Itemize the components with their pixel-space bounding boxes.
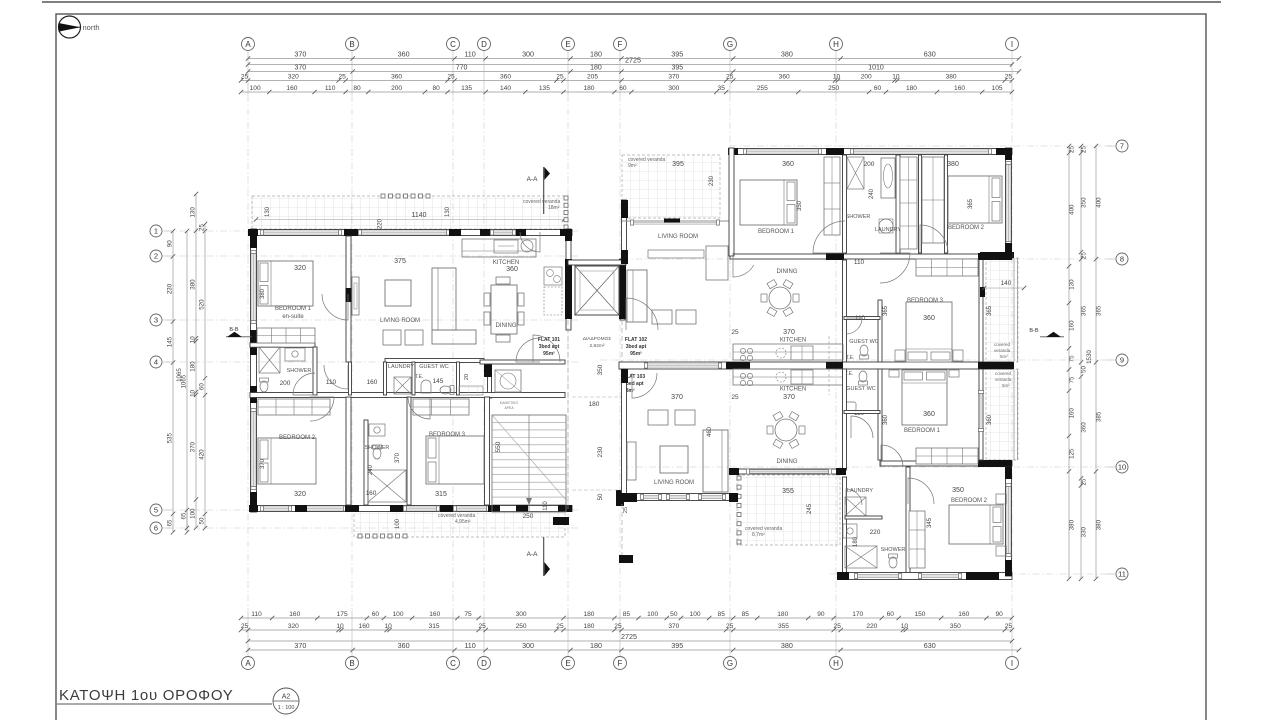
- veranda top-left hatch: [252, 194, 568, 229]
- svg-text:360: 360: [779, 74, 790, 81]
- dining table left flat: [484, 277, 524, 342]
- svg-text:5m²: 5m²: [1000, 354, 1008, 359]
- svg-text:90: 90: [996, 611, 1004, 618]
- flat 102 label: [625, 337, 647, 357]
- svg-text:350: 350: [950, 623, 961, 630]
- svg-text:covered: covered: [994, 342, 1011, 347]
- svg-text:100: 100: [393, 611, 404, 618]
- svg-text:345: 345: [927, 517, 933, 528]
- upper flat top wall: [728, 148, 1012, 155]
- svg-text:10: 10: [384, 623, 392, 630]
- lower shower room: [845, 529, 905, 568]
- svg-text:240: 240: [869, 188, 875, 199]
- svg-text:1010: 1010: [868, 65, 884, 72]
- svg-text:365: 365: [1081, 305, 1088, 316]
- svg-text:8: 8: [1120, 255, 1124, 264]
- svg-text:FLAT 102: FLAT 102: [625, 337, 647, 343]
- svg-text:175: 175: [337, 611, 348, 618]
- svg-text:140: 140: [500, 85, 511, 92]
- svg-text:BEDROOM 2: BEDROOM 2: [948, 225, 985, 231]
- svg-text:370: 370: [668, 74, 679, 81]
- left flat interior walls: [250, 236, 565, 505]
- svg-text:160: 160: [1069, 320, 1076, 331]
- svg-text:A-A: A-A: [527, 551, 539, 558]
- svg-text:350: 350: [797, 200, 803, 211]
- svg-text:140: 140: [1001, 280, 1012, 287]
- svg-text:370: 370: [783, 329, 795, 336]
- svg-text:220: 220: [866, 623, 877, 630]
- flat 103 label: [623, 374, 645, 394]
- svg-text:95m²: 95m²: [543, 351, 555, 357]
- outer trim line top: [42, 1, 1221, 3]
- svg-text:130: 130: [265, 206, 271, 217]
- svg-text:370: 370: [671, 394, 683, 401]
- svg-text:360: 360: [1081, 422, 1088, 433]
- svg-text:BEDROOM 3: BEDROOM 3: [429, 432, 466, 438]
- svg-text:370: 370: [294, 49, 306, 58]
- svg-text:160: 160: [359, 623, 370, 630]
- svg-text:25: 25: [556, 74, 564, 81]
- svg-text:300: 300: [522, 49, 534, 58]
- staircase: [492, 415, 566, 520]
- svg-text:90: 90: [817, 611, 825, 618]
- svg-text:320: 320: [294, 265, 306, 272]
- veranda lower-middle hatch: [737, 475, 840, 545]
- svg-text:50: 50: [670, 611, 678, 618]
- left dimension column chains: [167, 192, 208, 535]
- svg-text:385: 385: [1096, 411, 1103, 422]
- svg-text:25: 25: [731, 329, 739, 336]
- lower flat left wall: [620, 369, 738, 513]
- svg-text:380: 380: [781, 641, 793, 650]
- svg-text:110: 110: [325, 85, 336, 92]
- svg-text:370: 370: [783, 394, 795, 401]
- svg-text:BEDROOM 1: BEDROOM 1: [275, 306, 312, 312]
- laundry room strip: [367, 364, 424, 394]
- svg-text:F: F: [618, 659, 623, 668]
- svg-text:370: 370: [294, 65, 306, 72]
- svg-text:5: 5: [154, 506, 158, 515]
- top dimension row walls: [239, 74, 1014, 83]
- svg-text:10: 10: [901, 623, 909, 630]
- svg-text:11: 11: [1118, 570, 1126, 579]
- upper flat guest wc: [846, 315, 879, 361]
- svg-text:300: 300: [516, 611, 527, 618]
- svg-text:360: 360: [782, 161, 794, 168]
- svg-text:105: 105: [992, 85, 1003, 92]
- top dimension row spans: [246, 49, 1021, 60]
- svg-text:380: 380: [947, 161, 959, 168]
- svg-text:355: 355: [778, 623, 789, 630]
- bed bedroom 2 left: [258, 438, 316, 498]
- svg-text:95m²: 95m²: [630, 351, 642, 357]
- svg-text:250: 250: [828, 85, 839, 92]
- svg-text:LAUNDRY: LAUNDRY: [875, 227, 902, 233]
- corridor dashed edges: [568, 320, 622, 555]
- svg-text:LIVING ROOM: LIVING ROOM: [654, 480, 694, 486]
- svg-text:covered: covered: [995, 371, 1012, 376]
- svg-text:180: 180: [853, 536, 859, 547]
- svg-text:360: 360: [883, 414, 889, 425]
- svg-text:110: 110: [854, 259, 865, 266]
- upper flat left wall & veranda edge: [621, 148, 734, 264]
- svg-text:180: 180: [583, 623, 594, 630]
- svg-text:160: 160: [958, 611, 969, 618]
- svg-text:135: 135: [461, 85, 472, 92]
- guest wc strip: [419, 364, 483, 395]
- svg-text:160: 160: [954, 85, 965, 92]
- grid lines horizontal right rows: [600, 146, 1112, 574]
- veranda right-lower hatch: [986, 369, 1018, 460]
- svg-text:LIVING ROOM: LIVING ROOM: [380, 318, 420, 324]
- svg-text:130: 130: [445, 206, 451, 217]
- svg-text:205: 205: [587, 74, 598, 81]
- svg-text:250: 250: [523, 513, 534, 520]
- svg-text:25: 25: [447, 74, 455, 81]
- svg-text:25: 25: [1005, 74, 1013, 81]
- svg-text:395: 395: [671, 641, 683, 650]
- stair lobby fixture: [495, 370, 521, 410]
- room label kitchen left: [493, 260, 519, 273]
- svg-text:75: 75: [1069, 355, 1076, 362]
- top dimension row total 2725: [246, 55, 1014, 66]
- svg-text:B: B: [349, 40, 354, 49]
- svg-text:B-B: B-B: [1029, 328, 1039, 334]
- svg-text:85: 85: [718, 611, 726, 618]
- svg-text:7: 7: [1120, 142, 1124, 151]
- bottom dimension row walls: [239, 623, 1014, 632]
- closet bedroom 1: [257, 328, 315, 343]
- svg-text:85: 85: [742, 611, 750, 618]
- svg-text:160: 160: [429, 611, 440, 618]
- grid column stems: [248, 51, 1012, 656]
- svg-text:300: 300: [522, 641, 534, 650]
- svg-text:3bed apt: 3bed apt: [626, 344, 647, 350]
- svg-text:50: 50: [1081, 365, 1088, 372]
- svg-text:BEDROOM 2: BEDROOM 2: [279, 435, 316, 441]
- svg-text:380: 380: [1069, 519, 1076, 530]
- svg-text:A: A: [245, 659, 251, 668]
- svg-text:2: 2: [154, 252, 158, 261]
- svg-text:25: 25: [614, 623, 622, 630]
- left flat top wall: [248, 229, 572, 236]
- svg-text:north: north: [83, 23, 100, 32]
- svg-text:SHOWER: SHOWER: [287, 368, 312, 374]
- veranda right-middle hatch: [986, 258, 1018, 362]
- svg-text:130: 130: [1069, 279, 1076, 290]
- svg-text:315: 315: [435, 491, 447, 498]
- wardrobe bedroom 2 upper right: [922, 157, 944, 243]
- svg-text:370: 370: [668, 623, 679, 630]
- svg-text:395: 395: [671, 65, 683, 72]
- svg-text:130: 130: [190, 207, 197, 218]
- svg-text:ΚΑΘΙΣΤΙΚΟ: ΚΑΘΙΣΤΙΚΟ: [500, 401, 519, 405]
- closet bedroom 3 left: [413, 399, 469, 415]
- veranda upper-right hatch: [622, 155, 720, 218]
- scale bubble A2 1:100: [273, 688, 299, 714]
- svg-text:F: F: [618, 40, 623, 49]
- bed bedroom 3 left: [395, 436, 484, 498]
- svg-text:25: 25: [241, 623, 249, 630]
- svg-text:550: 550: [495, 441, 502, 452]
- shower room en-suite strip: [259, 347, 337, 392]
- svg-text:en-suite: en-suite: [282, 314, 304, 320]
- svg-text:365: 365: [987, 305, 993, 316]
- svg-text:770: 770: [456, 65, 468, 72]
- svg-text:90: 90: [167, 240, 174, 247]
- svg-text:370: 370: [190, 441, 197, 452]
- svg-text:145: 145: [433, 378, 444, 385]
- lower flat living room: [627, 394, 728, 492]
- svg-text:75: 75: [1069, 376, 1076, 383]
- svg-text:110: 110: [855, 315, 866, 322]
- living room coffee table: [385, 280, 411, 306]
- svg-text:6: 6: [154, 524, 158, 533]
- svg-text:25: 25: [1069, 146, 1076, 153]
- svg-text:255: 255: [757, 85, 768, 92]
- right dimension column chains: [1067, 144, 1103, 581]
- svg-text:H: H: [833, 659, 839, 668]
- svg-text:240: 240: [368, 464, 374, 475]
- svg-text:230: 230: [709, 175, 715, 186]
- svg-text:220: 220: [870, 529, 881, 536]
- svg-text:180: 180: [906, 85, 917, 92]
- svg-text:25: 25: [338, 74, 346, 81]
- svg-text:380: 380: [1096, 519, 1103, 530]
- bed bedroom 1: [258, 261, 313, 306]
- grid row bubbles right: [1106, 140, 1128, 580]
- svg-text:LAUNDRY: LAUNDRY: [388, 364, 415, 370]
- svg-text:T.E.: T.E.: [415, 374, 424, 380]
- grid column bubbles bottom: [242, 657, 1019, 670]
- svg-text:25: 25: [1081, 146, 1088, 153]
- svg-text:180: 180: [583, 85, 594, 92]
- svg-text:25: 25: [834, 623, 842, 630]
- svg-text:25: 25: [1005, 623, 1013, 630]
- bed bedroom 2 upper right: [947, 161, 1002, 231]
- svg-text:80: 80: [433, 85, 441, 92]
- top dimension row openings: [239, 85, 1014, 94]
- svg-text:150: 150: [914, 611, 925, 618]
- svg-text:10: 10: [892, 74, 900, 81]
- svg-text:125: 125: [1069, 448, 1076, 459]
- svg-text:25: 25: [556, 623, 564, 630]
- svg-text:5m²: 5m²: [1002, 383, 1010, 388]
- left flat bottom wall: [249, 505, 572, 512]
- door arcs: [293, 221, 948, 505]
- svg-text:520: 520: [199, 299, 206, 310]
- grid lines horizontal left rows: [166, 231, 580, 528]
- living room tv unit: [352, 277, 359, 315]
- svg-text:50: 50: [598, 493, 604, 500]
- upper shower room: [846, 157, 902, 233]
- svg-text:25: 25: [1081, 478, 1088, 485]
- svg-text:60: 60: [619, 85, 627, 92]
- svg-text:DINING: DINING: [777, 269, 798, 275]
- svg-text:110: 110: [464, 641, 475, 650]
- svg-text:H: H: [833, 40, 839, 49]
- svg-text:10: 10: [336, 623, 344, 630]
- svg-text:I: I: [1011, 659, 1013, 668]
- svg-text:220: 220: [378, 218, 384, 229]
- svg-text:SHOWER: SHOWER: [846, 214, 871, 220]
- kitchen counter left flat: [462, 239, 562, 315]
- svg-text:245: 245: [807, 503, 813, 514]
- upper flat right wall: [979, 148, 1014, 362]
- svg-text:350: 350: [597, 364, 604, 375]
- svg-text:365: 365: [968, 198, 974, 209]
- left flat left wall: [250, 229, 257, 512]
- svg-text:180: 180: [583, 611, 594, 618]
- svg-text:D: D: [481, 659, 487, 668]
- svg-text:BEDROOM 1: BEDROOM 1: [904, 428, 941, 434]
- svg-text:200: 200: [280, 380, 291, 387]
- grid lines vertical: [248, 95, 1012, 612]
- svg-text:10: 10: [833, 74, 841, 81]
- svg-text:25: 25: [241, 74, 249, 81]
- middle shower room: [365, 424, 406, 502]
- svg-text:3: 3: [154, 316, 158, 325]
- svg-text:315: 315: [429, 623, 440, 630]
- bed bedroom 1 lower right: [883, 370, 993, 464]
- svg-text:25: 25: [199, 224, 206, 231]
- closet bedroom 1 upper right: [824, 157, 840, 235]
- grid column bubbles top: [242, 38, 1019, 51]
- svg-text:25: 25: [731, 394, 739, 401]
- svg-text:100: 100: [250, 85, 261, 92]
- svg-text:230: 230: [167, 283, 174, 294]
- svg-text:1530: 1530: [1086, 350, 1093, 364]
- svg-text:365: 365: [883, 305, 889, 316]
- lower flat guest wc: [845, 371, 876, 417]
- svg-text:veranda: veranda: [994, 348, 1011, 353]
- grid row bubbles left: [150, 225, 172, 534]
- svg-text:9m²: 9m²: [628, 163, 637, 169]
- svg-text:380: 380: [190, 279, 197, 290]
- top dimension row groups: [246, 65, 1021, 74]
- svg-text:400: 400: [1096, 197, 1103, 208]
- svg-text:380: 380: [781, 49, 793, 58]
- section marker A-A bottom: [527, 537, 550, 576]
- svg-text:10: 10: [190, 389, 197, 396]
- bed bedroom 1 upper right: [740, 161, 803, 235]
- svg-text:25: 25: [726, 623, 734, 630]
- title underline: [57, 703, 272, 705]
- svg-text:65: 65: [167, 519, 174, 526]
- svg-text:180: 180: [590, 641, 602, 650]
- bed bedroom 3 upper right: [883, 259, 1026, 362]
- svg-text:160: 160: [367, 379, 378, 386]
- svg-text:160: 160: [366, 490, 377, 497]
- svg-text:100: 100: [690, 611, 701, 618]
- svg-text:535: 535: [167, 433, 174, 444]
- svg-text:ΔΙΑΔΡΟΜΟΣ: ΔΙΑΔΡΟΜΟΣ: [583, 336, 612, 342]
- svg-text:350: 350: [1081, 197, 1088, 208]
- svg-text:A2: A2: [282, 694, 291, 701]
- svg-text:355: 355: [782, 488, 794, 495]
- svg-text:25: 25: [726, 74, 734, 81]
- svg-text:320: 320: [288, 623, 299, 630]
- section marker B-B left: [226, 327, 252, 337]
- svg-text:230: 230: [597, 446, 604, 457]
- svg-text:160: 160: [1069, 408, 1076, 419]
- svg-text:360: 360: [500, 74, 511, 81]
- corridor dims: [572, 364, 622, 500]
- svg-text:180: 180: [590, 65, 602, 72]
- svg-text:85: 85: [623, 611, 631, 618]
- bottom dimension row spans: [246, 641, 1021, 652]
- svg-text:4: 4: [154, 358, 158, 367]
- svg-text:BEDROOM 3: BEDROOM 3: [907, 298, 944, 304]
- svg-text:ΚΑΤΟΨΗ 1ου ΟΡΟΦΟΥ: ΚΑΤΟΨΗ 1ου ΟΡΟΦΟΥ: [59, 687, 233, 704]
- svg-text:380: 380: [260, 288, 266, 299]
- svg-text:D: D: [481, 40, 487, 49]
- svg-text:370: 370: [294, 641, 306, 650]
- lower flat interior walls: [729, 362, 1014, 580]
- svg-text:LIVING ROOM: LIVING ROOM: [658, 234, 698, 240]
- upper flat interior walls: [619, 155, 1014, 369]
- veranda bottom-left hatch: [354, 509, 565, 538]
- svg-text:2725: 2725: [625, 55, 641, 64]
- svg-text:330: 330: [1081, 526, 1088, 537]
- upper flat kitchen: [733, 336, 843, 362]
- svg-text:10: 10: [1118, 463, 1126, 472]
- svg-text:360: 360: [987, 414, 993, 425]
- svg-text:75: 75: [464, 611, 472, 618]
- svg-text:60: 60: [874, 85, 882, 92]
- svg-text:G: G: [727, 40, 733, 49]
- svg-text:360: 360: [923, 315, 935, 322]
- svg-text:BEDROOM 2: BEDROOM 2: [951, 498, 988, 504]
- svg-text:veranda: veranda: [995, 377, 1012, 382]
- svg-text:KITCHEN: KITCHEN: [780, 387, 806, 393]
- svg-text:50: 50: [199, 517, 206, 524]
- svg-text:25: 25: [623, 507, 629, 513]
- svg-text:380: 380: [946, 74, 957, 81]
- svg-text:630: 630: [924, 49, 936, 58]
- svg-text:300: 300: [668, 85, 679, 92]
- svg-text:20: 20: [464, 374, 470, 380]
- svg-text:395: 395: [672, 161, 684, 168]
- elevator shaft: [575, 266, 619, 315]
- svg-text:60: 60: [372, 611, 380, 618]
- svg-text:110: 110: [464, 49, 475, 58]
- svg-text:360: 360: [398, 49, 410, 58]
- svg-text:460: 460: [707, 426, 713, 437]
- svg-text:A-A: A-A: [527, 176, 539, 183]
- svg-text:630: 630: [924, 641, 936, 650]
- svg-text:100: 100: [190, 508, 197, 519]
- svg-text:BEDROOM 1: BEDROOM 1: [758, 229, 795, 235]
- bed bedroom 2 lower right: [909, 487, 1006, 568]
- svg-text:360: 360: [506, 266, 518, 273]
- svg-text:365: 365: [1096, 305, 1103, 316]
- svg-text:160: 160: [289, 611, 300, 618]
- section marker A-A top: [527, 167, 550, 214]
- closet bedroom 2 left: [258, 399, 330, 415]
- svg-text:180: 180: [589, 401, 600, 408]
- svg-text:DINING: DINING: [496, 323, 517, 329]
- north symbol: [59, 16, 100, 38]
- svg-text:SHOWER: SHOWER: [881, 547, 906, 553]
- svg-text:25: 25: [1081, 252, 1088, 259]
- svg-text:110: 110: [251, 611, 262, 618]
- svg-text:E: E: [565, 40, 570, 49]
- svg-text:60: 60: [199, 383, 206, 390]
- svg-text:360: 360: [923, 411, 935, 418]
- svg-text:65: 65: [181, 512, 188, 519]
- svg-text:360: 360: [398, 641, 410, 650]
